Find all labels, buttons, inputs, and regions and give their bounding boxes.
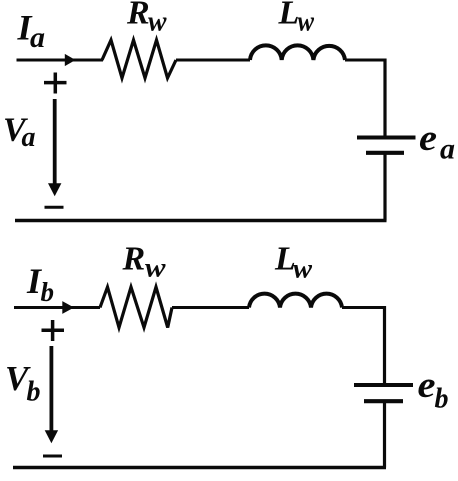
svg-text:e: e bbox=[419, 118, 437, 159]
wire inductor to right corner (bottom) bbox=[342, 306, 386, 309]
wire right vertical upper (bottom) bbox=[383, 306, 386, 384]
wire bottom return (bottom) bbox=[13, 466, 386, 469]
svg-text:R: R bbox=[122, 241, 146, 278]
resistor Rw (bottom) bbox=[100, 287, 172, 328]
svg-text:b: b bbox=[27, 377, 41, 408]
wire resistor to inductor (bottom) bbox=[172, 306, 249, 309]
wire inductor to right corner (top) bbox=[345, 59, 387, 62]
inductor Lw (top) bbox=[250, 45, 345, 60]
svg-text:R: R bbox=[126, 0, 150, 32]
wire resistor to inductor (top) bbox=[176, 59, 250, 62]
label e_b bbox=[418, 365, 449, 415]
svg-text:w: w bbox=[298, 7, 315, 38]
label e_a bbox=[419, 118, 455, 166]
label L_w (bottom) bbox=[274, 241, 313, 284]
plus sign Va bbox=[44, 73, 67, 94]
label V_b bbox=[5, 359, 41, 408]
svg-text:w: w bbox=[293, 254, 313, 284]
wire right vertical lower (top) bbox=[383, 155, 386, 221]
svg-text:L: L bbox=[278, 0, 300, 32]
source e_b plate short bbox=[364, 399, 403, 403]
inductor Lw (bottom) bbox=[249, 294, 342, 308]
svg-text:a: a bbox=[30, 21, 45, 54]
resistor Rw (top) bbox=[102, 40, 176, 78]
label L_w (top) bbox=[278, 0, 315, 38]
label R_w (top) bbox=[126, 0, 167, 38]
wire right vertical lower (bottom) bbox=[383, 403, 386, 468]
wire input port a bbox=[17, 59, 104, 62]
source e_b plate long bbox=[354, 383, 413, 387]
svg-text:a: a bbox=[22, 122, 36, 153]
source e_a plate long bbox=[357, 136, 416, 140]
minus sign Va bbox=[45, 206, 64, 209]
label I_b bbox=[26, 261, 54, 307]
current arrow Ia bbox=[65, 54, 76, 66]
label I_a bbox=[17, 8, 46, 55]
wire bottom return (top) bbox=[15, 219, 387, 222]
svg-text:w: w bbox=[145, 253, 167, 283]
wire right vertical upper (top) bbox=[383, 59, 386, 137]
label V_a bbox=[3, 112, 36, 154]
svg-text:b: b bbox=[41, 277, 55, 307]
minus sign Vb bbox=[43, 455, 62, 458]
svg-text:e: e bbox=[418, 365, 436, 406]
source e_a plate short bbox=[366, 151, 404, 155]
svg-text:a: a bbox=[440, 133, 455, 166]
wire input port b bbox=[14, 306, 100, 309]
voltage arrow Vb bbox=[45, 346, 58, 443]
svg-text:w: w bbox=[148, 7, 167, 38]
plus sign Vb bbox=[42, 320, 65, 341]
current arrow Ib bbox=[62, 301, 74, 314]
svg-text:b: b bbox=[435, 384, 449, 415]
label R_w (bottom) bbox=[122, 241, 167, 283]
voltage arrow Va bbox=[48, 99, 61, 196]
